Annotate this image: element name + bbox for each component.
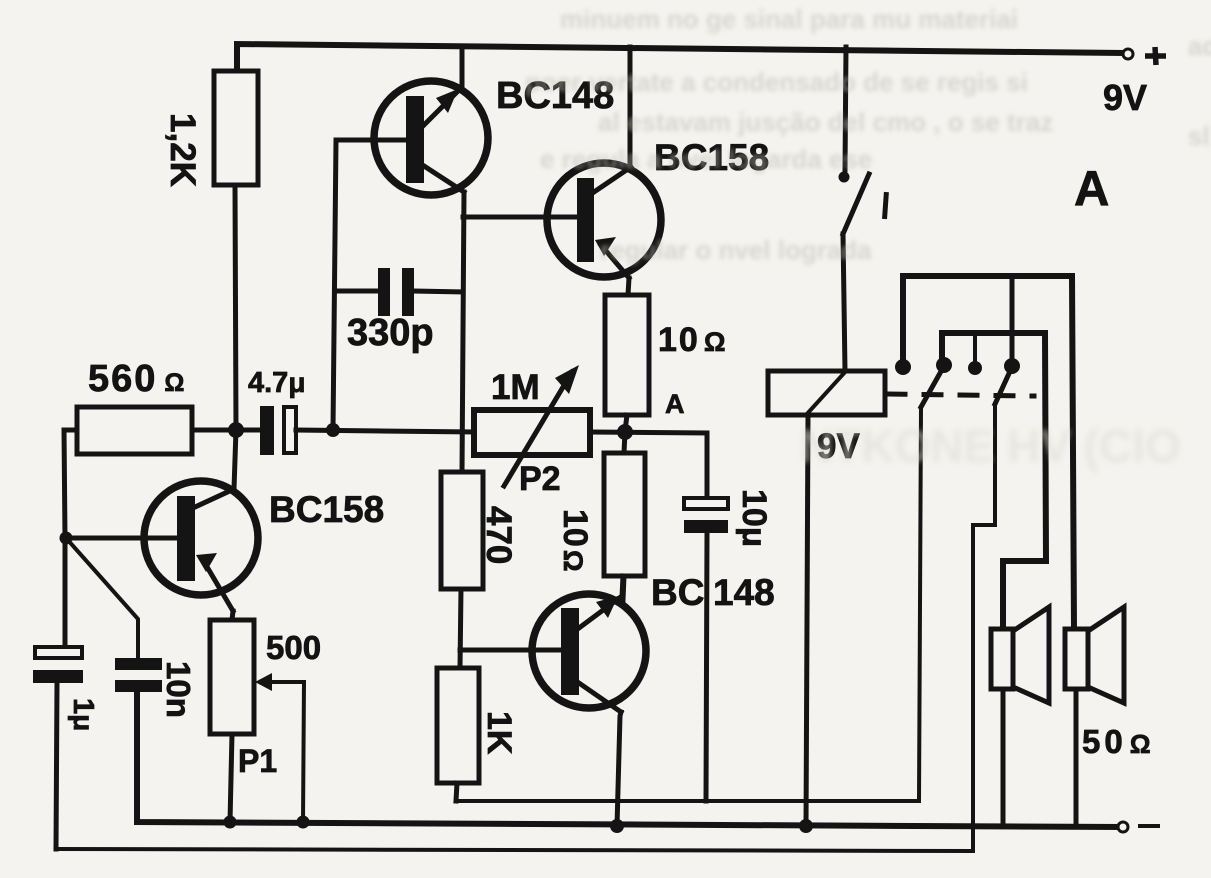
wire minus bus [137,692,1120,827]
contact dot 1 [895,359,911,375]
contact dot 2 [936,357,952,373]
relay contact second wire [942,333,1046,629]
svg-text:10n: 10n [160,661,197,718]
svg-text:1,2K: 1,2K [163,113,202,187]
resistor R 10ohm (upper) [605,295,649,415]
svg-text:P2: P2 [519,460,561,498]
node junction dot (1,2K / 560 / 4.7u / Q collector) [228,422,244,438]
resistor R 560ohm [64,430,77,538]
terminal + 9V [1123,49,1133,59]
svg-text:A: A [1074,162,1109,216]
svg-text:BC: BC [651,572,704,613]
relay coil 9V [768,371,885,826]
svg-text:ad: ad [1188,31,1211,61]
switch I [839,47,870,371]
svg-text:A: A [665,389,685,419]
label switch I [882,192,889,219]
svg-text:al estavam jusção del cmo , o: al estavam jusção del cmo , o se traz [598,107,1053,137]
node junction dot (4.7u / base line) [326,423,340,437]
label + terminal [1145,47,1166,65]
wire base node diagonal to 10n [66,538,138,658]
svg-text:4.7μ: 4.7μ [248,367,305,399]
capacitor C 1u [33,647,83,849]
svg-text:BC158: BC158 [269,489,384,530]
node dot base of Q4 [60,532,73,545]
dot Q3 emitter on minus bus [610,819,624,833]
dot P1 wiper on bus [297,816,310,829]
dot relay coil on bus [799,819,813,833]
wire base node down to 1u [63,538,68,648]
svg-text:poer vertate a condensado de s: poer vertate a condensado de se regis si [525,67,1028,97]
resistor R 1K [437,668,479,783]
contact blade 1 [921,366,944,407]
svg-text:1K: 1K [480,711,518,755]
transistor Q4 BC158 (left) [66,430,258,620]
resistor R 470 [441,472,483,589]
svg-text:148: 148 [713,572,775,613]
svg-text:10μ: 10μ [735,489,773,547]
contact dot 3 [968,333,982,375]
wire signal line to P2 [296,430,474,432]
svg-text:P1: P1 [238,743,277,779]
svg-text:1M: 1M [491,368,540,407]
wire 470 to 1K [460,589,461,668]
svg-text:10Ω: 10Ω [658,321,727,359]
svg-text:470: 470 [479,506,518,564]
transistor Q3 BC148 (lower) [460,576,646,826]
potentiometer P2 1M [474,365,590,486]
svg-text:1μ: 1μ [67,698,99,731]
wire Q2 base line [463,215,577,220]
capacitor C 4.7u [260,406,274,455]
capacitor C 10u [684,433,728,801]
contact dot 4 with stem to top wire [1004,276,1020,374]
resistor R 10ohm (lower) [604,432,645,600]
svg-text:NTKONE HV (CIO: NTKONE HV (CIO [800,420,1181,472]
svg-text:minuem no ge sinal para mu mat: minuem no ge sinal para mu materiai [560,4,1018,34]
dashed mechanical linkage [888,394,1034,396]
svg-text:sl: sl [1188,121,1210,151]
svg-text:9V: 9V [1103,77,1147,118]
contact blade 2 [995,367,1012,404]
svg-text:e regula a nvel logarda ese: e regula a nvel logarda ese [540,144,872,174]
svg-text:regular o nvel lograda: regular o nvel lograda [600,235,872,265]
svg-text:500: 500 [266,629,321,666]
wire 1,2K bottom to node [235,185,236,430]
wire 10ohm to node A [625,415,627,431]
transistor Q1 BC148 [337,46,488,195]
wire 1K bottom to output line [456,783,457,801]
node A dot [617,424,633,440]
wire vertical base of Q1 to node [333,140,336,430]
wire output line to relay contact pole [456,407,921,801]
capacitor C 330p [378,268,390,316]
terminal minus [1118,822,1128,832]
svg-text:50Ω: 50Ω [1082,723,1155,760]
wire bottom return line (1u to contact pole2) [56,404,995,851]
relay contact top wire [903,276,1074,629]
ghost bleedthrough text [525,4,1211,265]
capacitor C 10n [115,658,162,822]
wire Q1 collector down to 470 [462,192,464,472]
speaker right 50ohm [1065,607,1124,827]
speaker left [991,607,1049,826]
potentiometer P1 500 [210,620,304,822]
svg-text:10Ω: 10Ω [556,509,594,571]
dot P1 bottom on bus [224,816,237,829]
wire node A to 10u [590,432,707,433]
resistor R 1,2K [214,71,258,185]
wire top +9V bus [237,44,1122,71]
transistor Q2 BC158 [547,47,661,295]
svg-text:330p: 330p [347,312,434,354]
